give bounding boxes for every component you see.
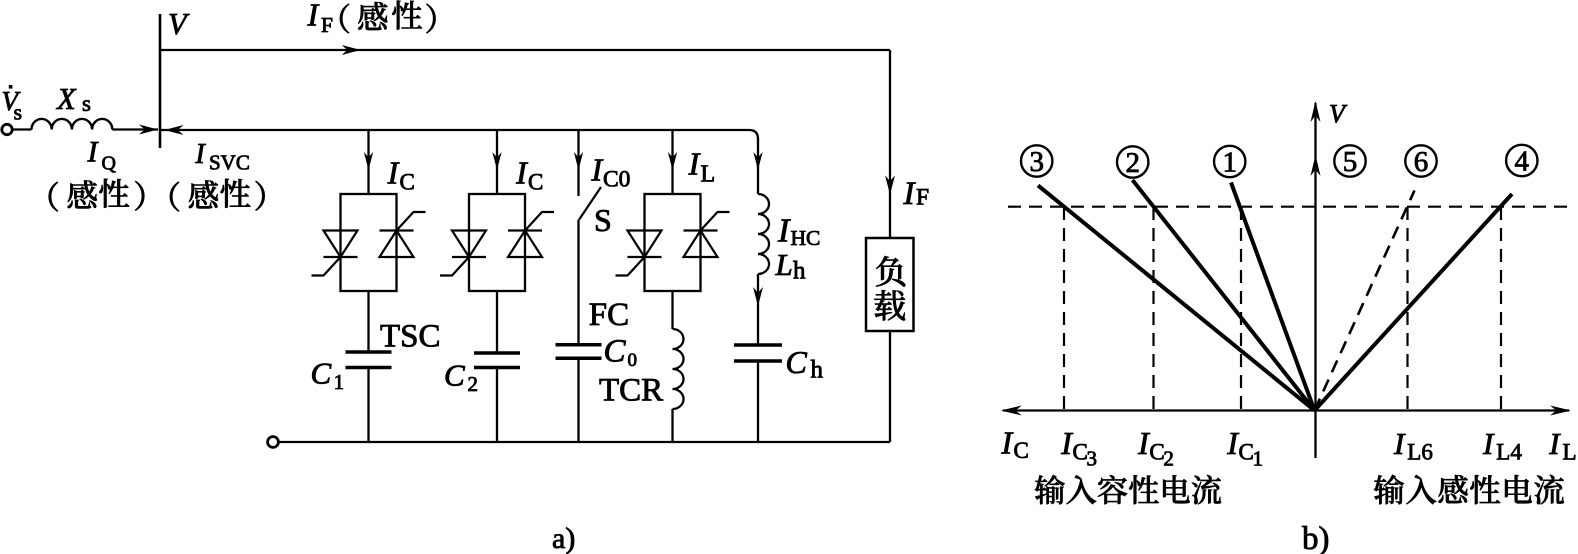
svg-text:I: I bbox=[1548, 426, 1561, 461]
label input inductive current bbox=[1374, 475, 1404, 504]
circled 2 bbox=[1117, 146, 1148, 179]
svg-text:I: I bbox=[515, 154, 528, 190]
wire branch2 mid bbox=[496, 291, 498, 353]
svg-text:Q: Q bbox=[102, 153, 117, 175]
arrowhead branch3 IC0 bbox=[574, 152, 583, 170]
arrowhead IF on top feeder bbox=[342, 45, 361, 55]
svg-text:C: C bbox=[1014, 438, 1029, 463]
svg-text:X: X bbox=[55, 82, 77, 116]
svg-text:0: 0 bbox=[628, 350, 638, 371]
inductor Lh bbox=[758, 194, 769, 274]
svg-text:C: C bbox=[400, 170, 415, 195]
load box 负载 bbox=[866, 238, 914, 331]
svg-text:C: C bbox=[444, 358, 465, 393]
arrowhead branch2 IC bbox=[492, 152, 501, 170]
capacitor C1 bbox=[346, 352, 392, 368]
svg-text:I: I bbox=[903, 176, 917, 212]
svg-text:I: I bbox=[1060, 425, 1073, 461]
y axis arrowhead second bbox=[1311, 155, 1321, 176]
wire load to rail bbox=[889, 331, 891, 442]
wire branch1 bottom bbox=[367, 368, 369, 443]
svg-text:L: L bbox=[1563, 440, 1577, 465]
svg-text:SVC: SVC bbox=[209, 151, 250, 175]
svg-text:L6: L6 bbox=[1407, 440, 1433, 465]
dot above Vs bbox=[9, 85, 13, 89]
svg-text:h: h bbox=[811, 357, 824, 384]
y axis V bbox=[1314, 103, 1316, 458]
wire branch3 mid bbox=[577, 220, 579, 345]
svg-text:C: C bbox=[311, 355, 332, 390]
load char 负 bbox=[876, 256, 905, 287]
svg-text:4: 4 bbox=[1515, 145, 1530, 177]
svg-text:TCR: TCR bbox=[599, 373, 663, 409]
wire branch5 mid bbox=[757, 274, 759, 345]
wire branch1 mid bbox=[367, 291, 369, 352]
wire branch4 top bbox=[671, 130, 673, 194]
circled 1 bbox=[1214, 146, 1245, 179]
label (inductive) top bbox=[340, 4, 349, 34]
arrowhead IF load bbox=[885, 175, 895, 194]
thyristor valve U3 TCR antiparallel pair bbox=[616, 194, 730, 291]
dashed drop line IL4 bbox=[1500, 207, 1502, 409]
arrowhead ISVC into bus bbox=[165, 125, 184, 135]
svg-text:I: I bbox=[1393, 426, 1406, 461]
circled 5 bbox=[1334, 145, 1365, 178]
svg-text:5: 5 bbox=[1343, 146, 1358, 178]
svg-text:2: 2 bbox=[468, 372, 479, 396]
circled 3 bbox=[1021, 145, 1052, 178]
characteristic line 4 bbox=[1315, 194, 1513, 411]
svg-text:I: I bbox=[1001, 425, 1014, 461]
svg-text:6: 6 bbox=[1414, 146, 1429, 178]
wire bottom rail bbox=[279, 441, 891, 443]
dashed drop line IC1 bbox=[1240, 207, 1242, 409]
capacitor C2 bbox=[474, 353, 520, 368]
dashed drop line IC3 bbox=[1063, 207, 1065, 409]
x axis I bbox=[1003, 409, 1569, 411]
dashed drop line IL6 bbox=[1406, 207, 1408, 409]
svg-text:I: I bbox=[194, 139, 206, 170]
wire branch4 mid bbox=[671, 291, 673, 329]
arrowhead branch5 lower bbox=[753, 287, 763, 306]
wire Xs to bus bbox=[112, 128, 158, 130]
svg-text:2: 2 bbox=[1125, 147, 1140, 179]
svg-text:I: I bbox=[1226, 425, 1239, 461]
wire branch1 top bbox=[367, 130, 369, 194]
x axis right arrowhead bbox=[1550, 406, 1571, 416]
svg-text:F: F bbox=[916, 185, 929, 211]
svg-text:I: I bbox=[1482, 426, 1495, 461]
svg-text:h: h bbox=[793, 258, 806, 285]
load char 载 bbox=[874, 290, 905, 320]
arrowhead branch4 IL bbox=[668, 152, 677, 170]
svg-text:1: 1 bbox=[1222, 146, 1237, 178]
arrowhead IQ into bus bbox=[139, 125, 158, 135]
characteristic line 2 bbox=[1133, 180, 1315, 411]
capacitor Ch bbox=[734, 345, 782, 361]
circled 4 bbox=[1506, 145, 1537, 178]
svg-text:C0: C0 bbox=[603, 166, 630, 192]
svg-text:3: 3 bbox=[1029, 146, 1044, 178]
bus bar V bbox=[159, 14, 162, 148]
svg-text:S: S bbox=[594, 202, 612, 238]
svg-text:3: 3 bbox=[1087, 446, 1098, 470]
thyristor valve U2 TSC2 antiparallel pair bbox=[440, 194, 554, 291]
dashed drop line IC2 bbox=[1152, 207, 1154, 409]
svg-text:a): a) bbox=[552, 522, 575, 554]
y axis arrowhead top bbox=[1311, 101, 1321, 122]
svg-text:s: s bbox=[14, 100, 23, 125]
arrowhead branch1 IC bbox=[364, 152, 373, 170]
inductor TCR reactor bbox=[673, 329, 684, 409]
wire branch5 bottom bbox=[757, 361, 759, 442]
arrowhead branch5 bbox=[753, 152, 762, 170]
svg-text:1: 1 bbox=[1253, 446, 1264, 470]
inductor Xs bbox=[32, 119, 113, 130]
svg-text:I: I bbox=[688, 146, 701, 182]
svg-text:C: C bbox=[528, 170, 543, 195]
svg-text:FC: FC bbox=[589, 297, 629, 333]
wire branch2 top bbox=[496, 130, 498, 194]
circled 6 bbox=[1405, 145, 1436, 178]
thyristor valve U1 TSC1 antiparallel pair bbox=[312, 194, 426, 291]
x axis left arrowhead bbox=[1001, 406, 1022, 416]
svg-text:C: C bbox=[604, 334, 627, 370]
wire branch3 bottom bbox=[577, 358, 579, 442]
svg-text:2: 2 bbox=[1163, 446, 1174, 470]
wire load branch bbox=[889, 50, 891, 238]
source terminal (input) bbox=[2, 124, 12, 134]
svg-text:L4: L4 bbox=[1496, 440, 1522, 465]
wire branch3 top bbox=[577, 130, 579, 196]
return terminal bbox=[268, 437, 279, 448]
svg-text:I: I bbox=[591, 151, 604, 187]
svg-text:I: I bbox=[1137, 425, 1150, 461]
svg-text:F: F bbox=[321, 13, 333, 37]
wire branch2 bottom bbox=[496, 368, 498, 443]
switch S blade bbox=[579, 187, 601, 220]
label input capacitive current bbox=[1035, 475, 1065, 504]
svg-text:s: s bbox=[82, 91, 91, 116]
wire source to Xs bbox=[12, 128, 32, 130]
wire top feeder bbox=[160, 49, 890, 51]
svg-text:b): b) bbox=[1302, 521, 1330, 554]
svg-text:I: I bbox=[387, 154, 400, 190]
characteristic line 1 bbox=[1231, 183, 1315, 411]
svg-text:L: L bbox=[701, 162, 716, 188]
wire branch4 bottom bbox=[671, 409, 673, 442]
label (inductive) ISVC bbox=[170, 182, 179, 212]
wire lower feeder bbox=[160, 130, 758, 139]
label (inductive) IQ bbox=[49, 182, 58, 212]
capacitor C0 bbox=[556, 345, 602, 359]
svg-text:1: 1 bbox=[334, 370, 345, 394]
svg-text:HC: HC bbox=[791, 226, 821, 250]
svg-text:I: I bbox=[777, 213, 791, 250]
svg-text:C: C bbox=[786, 344, 808, 380]
wire branch5 top bbox=[757, 138, 759, 194]
dashed rated voltage line bbox=[1008, 206, 1570, 208]
svg-text:L: L bbox=[775, 247, 793, 282]
characteristic line 6 dashed bbox=[1315, 191, 1415, 411]
svg-text:I: I bbox=[307, 0, 320, 33]
characteristic line 3 bbox=[1038, 185, 1315, 410]
svg-text:TSC: TSC bbox=[380, 319, 441, 355]
